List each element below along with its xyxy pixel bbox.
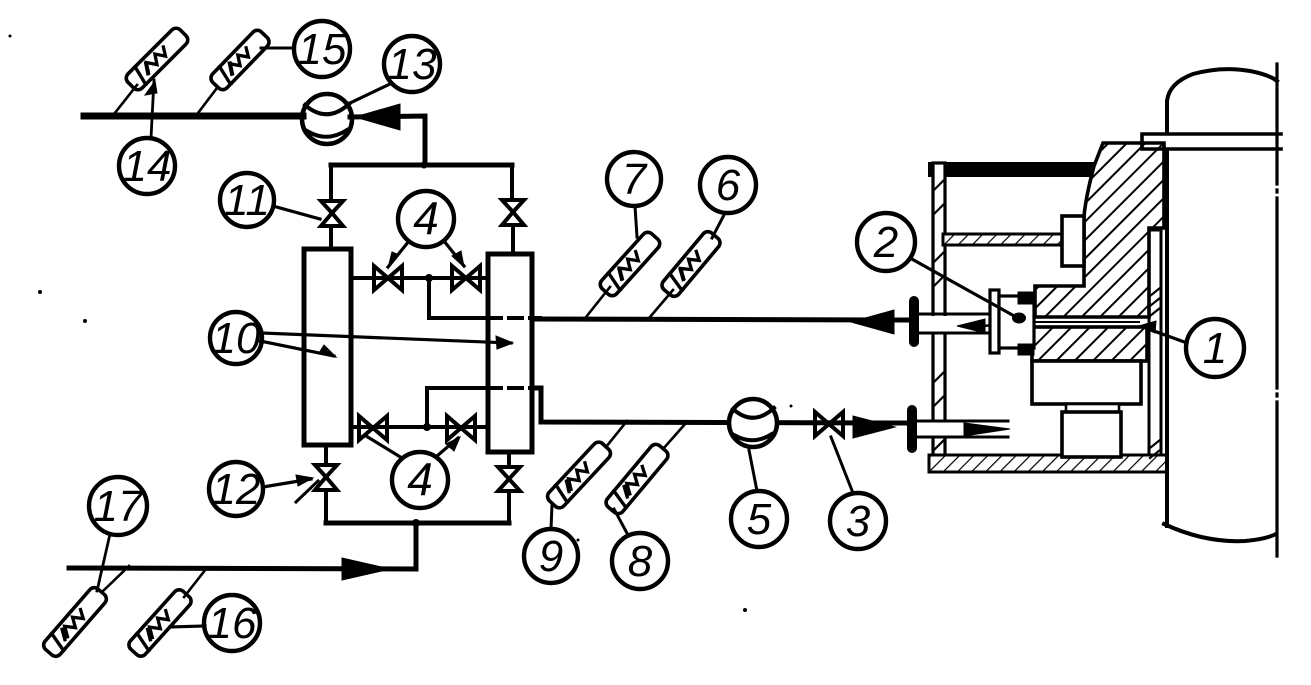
stem capsule 7 to pipe — [586, 287, 610, 317]
thermowell capsule 9 — [545, 440, 613, 511]
node: junction lower bypass — [423, 423, 431, 431]
vessel flange — [1142, 134, 1281, 149]
wire: valve to bottom header — [507, 491, 511, 523]
wire: top-left feed pipe — [84, 116, 425, 165]
callout circle 11 with leader — [220, 173, 320, 227]
arrow on lower line to vessel (points right) — [853, 416, 895, 438]
scan specks — [9, 35, 793, 613]
callout circle 12 with leader — [209, 462, 318, 516]
callout circle 17 — [89, 477, 147, 535]
sample channel line — [1036, 321, 1139, 323]
arrow on upper line (points left) — [851, 310, 894, 334]
valve 4 upper-right (horizontal) — [452, 266, 480, 290]
lower hatched band — [1032, 327, 1147, 361]
svg-text:15: 15 — [298, 25, 347, 74]
wire: bottom-left feed pipe — [69, 568, 416, 569]
callout circle 5 with leader — [731, 450, 787, 547]
valve bottom-right (vertical) — [498, 467, 520, 491]
svg-text:12: 12 — [212, 465, 261, 514]
block below band — [1032, 361, 1141, 404]
callout circle 3 with leader — [830, 437, 886, 549]
lower probe tube — [917, 421, 1012, 437]
callout circle 2 with leader — [857, 213, 1016, 317]
flange upper nozzle — [909, 296, 919, 347]
enclosure left wall — [933, 163, 945, 468]
callout circle 6 with leader — [700, 157, 756, 238]
stem from pipe to capsule 14 — [114, 85, 137, 114]
arrow on top-left pipe (points left) — [355, 104, 400, 130]
flow meter 5 (ball) — [729, 399, 777, 447]
wire: upper sample line to right column (dashed through) — [429, 318, 909, 320]
wire: left header drop to valve 11 — [329, 165, 333, 201]
valve top-right (vertical) — [502, 200, 524, 225]
stem capsule 17 to pipe — [103, 566, 129, 591]
callout circle 13 with leader — [348, 36, 440, 104]
svg-text:5: 5 — [747, 495, 772, 544]
enclosure bottom wall — [929, 455, 1167, 472]
wire: vertical link capsule14 / pipe / callout 14 — [145, 80, 157, 138]
wire: junction drop to sample line — [427, 278, 431, 318]
wire: lower bypass line between columns — [351, 425, 488, 429]
wire: valve 12 to bottom header — [324, 490, 328, 523]
svg-text:4: 4 — [407, 453, 433, 505]
svg-text:8: 8 — [628, 537, 653, 586]
probe inner arrow (points left) — [957, 319, 985, 333]
wire: valve 11 to left column — [329, 226, 333, 249]
callout circle 10 with two leaders — [210, 312, 513, 364]
callout circle 1 with leader — [1139, 319, 1244, 377]
enclosure right wall — [1149, 230, 1161, 458]
thermowell capsule 8 — [604, 442, 671, 516]
vessel left wall — [1165, 150, 1169, 526]
svg-text:10: 10 — [212, 314, 261, 363]
leader to callout 15 — [261, 47, 294, 50]
callout circle 8 with leader — [612, 509, 668, 589]
stem from pipe to capsule 15 — [198, 88, 217, 113]
svg-text:2: 2 — [873, 218, 898, 267]
node: junction bottom header — [412, 519, 420, 527]
wire: valve to right column — [511, 225, 515, 254]
column 10 left — [304, 249, 351, 445]
vessel section line — [1275, 64, 1278, 556]
support box — [1062, 412, 1121, 457]
column 10 right — [488, 254, 532, 452]
wire: right header drop to valve — [510, 166, 514, 200]
callout circle 15 — [294, 21, 350, 77]
thermowell capsule 17 — [41, 585, 109, 658]
stem capsule 9 to pipe — [606, 421, 627, 447]
node: junction upper bypass — [425, 274, 433, 282]
flow meter 13 (ball) — [302, 94, 352, 144]
arrow on bottom feed pipe (points right) — [342, 558, 390, 580]
thermowell capsule 15 — [208, 28, 271, 92]
wire: left column bottom drop — [324, 445, 328, 465]
packing gland — [990, 290, 1034, 355]
thermowell capsule 14 — [124, 26, 190, 92]
svg-text:6: 6 — [716, 161, 741, 210]
valve 12 (vertical) — [315, 465, 337, 490]
wire: upper bypass line between columns — [351, 276, 488, 280]
svg-text:7: 7 — [622, 155, 648, 204]
stem capsule 6 to pipe — [650, 290, 673, 317]
wire: bottom feed riser — [414, 523, 419, 569]
internal shelf — [943, 234, 1063, 245]
svg-text:1: 1 — [1203, 324, 1227, 373]
wire: top manifold header — [331, 163, 512, 168]
callout circle 14 — [119, 138, 175, 194]
step piece — [1066, 404, 1119, 412]
leader: callout 17 to capsule through pipe — [97, 534, 110, 591]
valve 11 (vertical) — [321, 201, 343, 226]
nozzle block (hatched) — [1035, 143, 1164, 317]
callout circle 4 lower with leaders — [366, 436, 460, 508]
node: header junction — [421, 162, 428, 169]
svg-text:13: 13 — [388, 40, 437, 89]
flange lower nozzle — [907, 405, 917, 453]
wire: right column bottom drop — [507, 452, 511, 467]
vessel dome — [1167, 69, 1277, 133]
enclosure top wall — [929, 163, 1101, 176]
valve 3 (horizontal) — [815, 412, 843, 436]
thermowell capsule 7 — [598, 230, 662, 298]
wire: lower sample return line (dashed through right column) — [427, 388, 909, 427]
svg-text:9: 9 — [539, 532, 563, 581]
callout circle 7 with leader — [607, 152, 661, 237]
stem capsule 16 to pipe — [184, 569, 206, 597]
svg-text:3: 3 — [846, 497, 871, 546]
wire: bottom manifold header — [326, 521, 509, 526]
svg-text:14: 14 — [123, 142, 172, 191]
stem capsule 8 to pipe — [663, 423, 686, 449]
mounting tab — [1062, 216, 1084, 266]
svg-text:11: 11 — [224, 176, 270, 225]
lower probe inner arrow (points right) — [964, 423, 1010, 436]
valve 4 lower-left (horizontal) — [359, 416, 387, 440]
valve 4 lower-right (horizontal) — [447, 416, 475, 440]
svg-text:17: 17 — [94, 482, 144, 531]
svg-text:4: 4 — [413, 192, 439, 244]
thermowell capsule 6 — [660, 229, 723, 299]
vessel bottom curve — [1164, 524, 1276, 541]
valve 4 upper-left (horizontal) — [374, 266, 402, 290]
thermowell capsule 16 — [126, 587, 193, 658]
callout circle 9 with leader — [524, 505, 578, 583]
callout circle 4 upper with leaders — [388, 191, 464, 268]
svg-text:16: 16 — [208, 599, 257, 648]
upper probe tube — [920, 314, 994, 333]
probe center line to tip — [984, 322, 1016, 326]
callout circle 16 with leader — [170, 595, 260, 651]
